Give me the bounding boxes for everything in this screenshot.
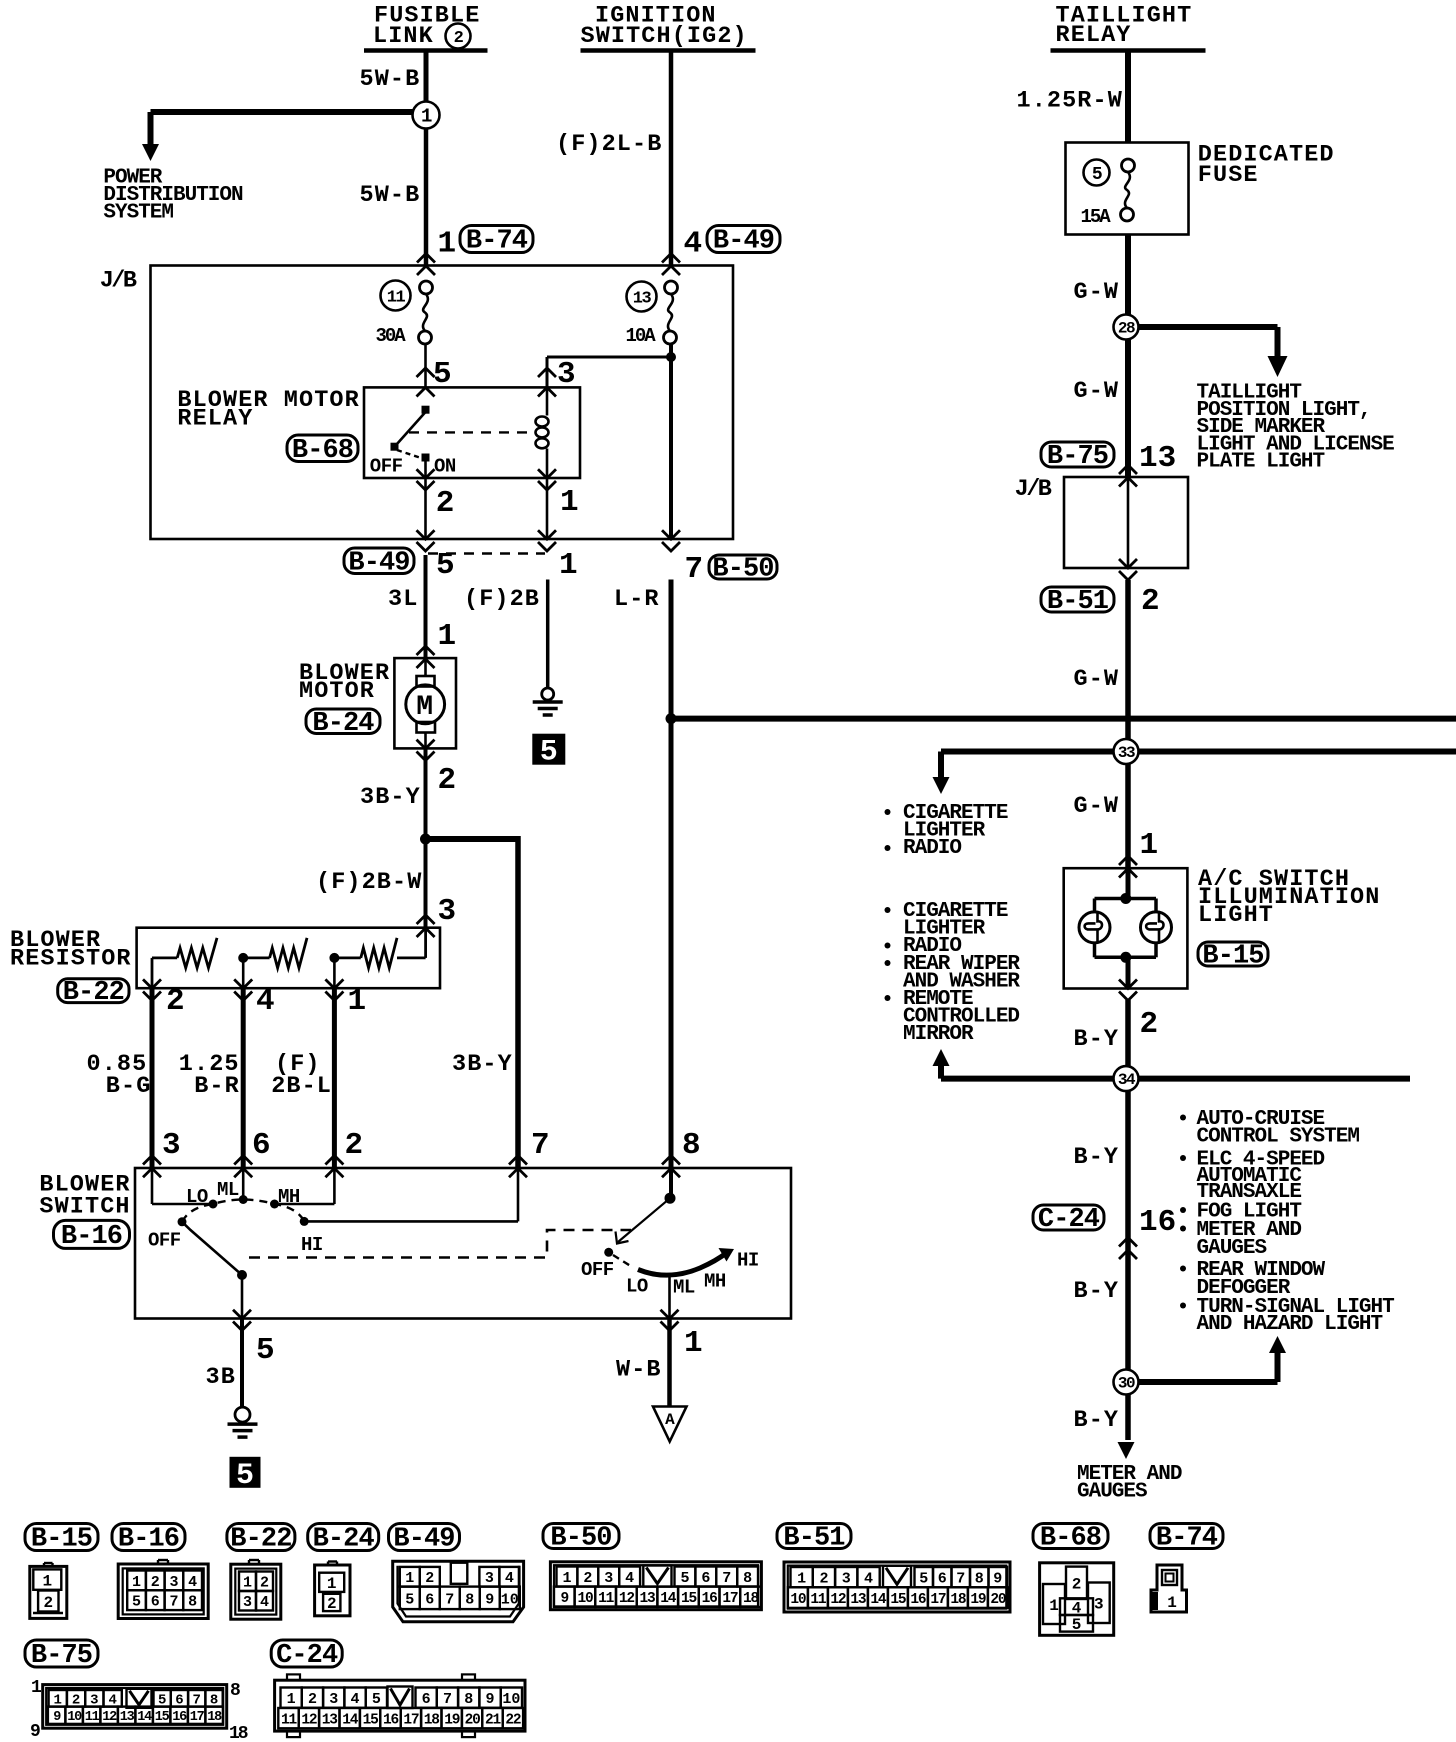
svg-text:4: 4	[256, 984, 275, 1019]
svg-text:18: 18	[743, 1591, 759, 1607]
svg-text:18: 18	[229, 1724, 248, 1742]
LO contact	[209, 1200, 218, 1209]
circled 2 (fusible link)	[446, 24, 471, 49]
svg-text:2: 2	[819, 1571, 828, 1588]
svg-text:1: 1	[42, 1572, 52, 1590]
left arm wire down	[241, 1275, 244, 1319]
svg-text:4: 4	[864, 1571, 873, 1588]
circled 13	[627, 282, 657, 312]
wire relay pin2 down	[424, 478, 427, 539]
svg-text:5: 5	[405, 1591, 414, 1608]
svg-text:10: 10	[790, 1592, 806, 1608]
svg-text:2: 2	[425, 1570, 434, 1587]
sw stub pin6	[242, 1168, 245, 1196]
svg-text:3: 3	[842, 1571, 851, 1588]
connector B-51 label	[1041, 587, 1114, 612]
svg-text:5: 5	[919, 1571, 928, 1588]
svg-text:4: 4	[684, 227, 703, 262]
svg-text:3: 3	[1094, 1596, 1104, 1614]
B-16 pinout	[118, 1564, 208, 1619]
svg-text:3: 3	[162, 1128, 181, 1163]
motor terminal top	[424, 659, 427, 677]
switch exit chevrons right	[661, 1310, 679, 1319]
connector B-49 ref	[389, 1524, 460, 1551]
svg-text:2: 2	[1140, 1007, 1159, 1042]
connector B-24 ref	[308, 1524, 379, 1551]
svg-text:2: 2	[583, 1570, 592, 1587]
svg-text:14: 14	[137, 1710, 152, 1725]
branch arrow up to mirror list	[938, 1062, 944, 1079]
C-24 pinout	[275, 1680, 525, 1731]
wire to relay coil	[547, 356, 671, 359]
svg-text:1.25R-W: 1.25R-W	[1017, 88, 1123, 115]
relay ON to pin2 wire	[424, 460, 427, 478]
svg-text:13: 13	[640, 1591, 656, 1607]
svg-text:2: 2	[1072, 1576, 1082, 1594]
resistor R1	[177, 938, 217, 968]
svg-text:6: 6	[252, 1128, 271, 1163]
svg-text:MH: MH	[704, 1271, 726, 1293]
B-24 pinout	[315, 1565, 350, 1616]
junction dot resistor a	[238, 953, 248, 963]
ground triangle A	[653, 1407, 687, 1442]
svg-text:2: 2	[166, 984, 185, 1019]
svg-text:11: 11	[85, 1710, 100, 1725]
ground symbol 1	[542, 688, 554, 700]
sw stub pin2	[333, 1168, 336, 1204]
wire (F)2L-B	[669, 51, 674, 267]
B-22 pinout	[231, 1564, 281, 1619]
svg-text:B-22: B-22	[63, 978, 124, 1008]
wire 0.85B-G	[150, 988, 155, 1168]
svg-text:20: 20	[465, 1712, 481, 1728]
resistor mid rail 1	[243, 957, 269, 960]
connector B-51 ref	[777, 1524, 851, 1549]
wire B-Y down	[1125, 1000, 1131, 1440]
illumination loads list 2	[885, 907, 891, 913]
connector B-74 label	[460, 226, 533, 253]
ground ref black 5 #2	[230, 1457, 261, 1488]
fuse symbol 15A	[1122, 159, 1135, 172]
B-74 pinout	[1151, 1565, 1187, 1612]
svg-text:B-74: B-74	[1156, 1524, 1218, 1554]
connector B-16 ref	[112, 1524, 185, 1551]
svg-text:8: 8	[464, 1691, 473, 1708]
svg-text:B-Y: B-Y	[1074, 1278, 1120, 1305]
junction circle 1	[413, 102, 440, 129]
B-15 pinout	[30, 1566, 67, 1618]
connector C-24 label	[1033, 1205, 1104, 1230]
switch exit chevrons left	[233, 1310, 251, 1319]
dedicated fuse box	[1066, 143, 1189, 235]
svg-text:5W-B: 5W-B	[360, 66, 421, 93]
svg-text:16: 16	[383, 1712, 399, 1728]
svg-text:8: 8	[682, 1128, 701, 1163]
wire (F)2B to ground	[546, 580, 550, 689]
bus line through 33	[941, 749, 1456, 755]
svg-text:5: 5	[132, 1594, 141, 1611]
blower resistor box	[137, 928, 440, 989]
motor exit chevrons	[417, 740, 435, 749]
blower motor relay box	[364, 387, 580, 478]
ground ref black 5 #1	[532, 734, 565, 765]
svg-text:7: 7	[445, 1591, 454, 1608]
B-51 pinout	[784, 1562, 1010, 1612]
svg-text:L-R: L-R	[614, 586, 660, 613]
connector B-68 label mid	[287, 435, 358, 462]
svg-text:1: 1	[438, 227, 457, 262]
B-49 dashed link	[428, 552, 545, 554]
resistor rail in	[424, 928, 427, 958]
wire 1.25R-W	[1125, 51, 1131, 144]
svg-text:B-50: B-50	[550, 1524, 611, 1554]
branch at 30 to turn-signal	[1138, 1379, 1278, 1385]
svg-text:OFF: OFF	[148, 1230, 181, 1252]
svg-text:5: 5	[1072, 1616, 1082, 1634]
connector B-50 ref	[543, 1524, 619, 1549]
right OFF dashed stub	[613, 1255, 633, 1268]
right switch wire to pivot	[669, 1168, 673, 1198]
svg-text:RESISTOR: RESISTOR	[10, 946, 132, 973]
resistor entry chevrons	[417, 915, 435, 924]
connector B-75 ref	[25, 1640, 98, 1667]
J/B exit chevrons x425	[417, 530, 435, 539]
motor terminal bottom	[417, 722, 436, 733]
svg-text:17: 17	[930, 1592, 946, 1608]
svg-text:1: 1	[327, 1575, 337, 1593]
svg-text:G-W: G-W	[1074, 666, 1120, 693]
svg-text:3: 3	[243, 1594, 252, 1611]
resistor exit chevrons	[143, 979, 161, 988]
wire (F)2B-W to resistor	[424, 839, 428, 928]
svg-text:B-51: B-51	[783, 1524, 845, 1554]
svg-text:15: 15	[890, 1592, 906, 1608]
wire G-W to J/B 2	[1125, 315, 1131, 477]
right switch arm	[618, 1198, 670, 1242]
svg-text:21: 21	[485, 1712, 502, 1728]
svg-text:7: 7	[685, 552, 704, 587]
svg-text:19: 19	[444, 1712, 460, 1728]
svg-text:ON: ON	[434, 456, 456, 478]
svg-text:G-W: G-W	[1074, 378, 1120, 405]
blower switch box	[135, 1168, 791, 1319]
left rotary dashed arc	[182, 1200, 304, 1222]
svg-text:20: 20	[990, 1592, 1006, 1608]
ignition switch bus bar	[581, 48, 756, 53]
svg-text:J/B: J/B	[1015, 476, 1052, 503]
svg-text:SWITCH: SWITCH	[39, 1194, 130, 1221]
svg-text:B-Y: B-Y	[1074, 1026, 1120, 1053]
connector B-75 label	[1041, 442, 1114, 467]
svg-text:12: 12	[619, 1591, 635, 1607]
svg-text:5: 5	[1092, 165, 1102, 185]
wire L-R lower	[669, 580, 674, 1169]
svg-text:3: 3	[329, 1691, 338, 1708]
svg-text:17: 17	[190, 1710, 205, 1725]
svg-text:6: 6	[422, 1691, 431, 1708]
svg-text:1: 1	[348, 984, 367, 1019]
svg-text:30A: 30A	[376, 325, 407, 347]
svg-text:J/B: J/B	[100, 268, 137, 295]
svg-text:CONTROL SYSTEM: CONTROL SYSTEM	[1197, 1126, 1360, 1149]
svg-text:B-49: B-49	[393, 1525, 454, 1555]
svg-text:10A: 10A	[626, 325, 657, 347]
relay coil	[546, 387, 549, 415]
sw stub pin7	[517, 1168, 520, 1221]
svg-text:1: 1	[405, 1570, 414, 1587]
svg-text:1: 1	[562, 1570, 571, 1587]
svg-text:2: 2	[1141, 584, 1160, 619]
resistor rail left	[152, 957, 177, 960]
svg-text:15: 15	[363, 1712, 379, 1728]
J/B exit chevrons x547	[538, 530, 556, 539]
svg-text:GAUGES: GAUGES	[1077, 1481, 1147, 1504]
branch at 28 to taillight loads	[1138, 324, 1278, 330]
svg-text:5W-B: 5W-B	[360, 182, 421, 209]
svg-text:2: 2	[436, 486, 455, 521]
svg-text:6: 6	[425, 1591, 434, 1608]
arrow to power distribution	[142, 144, 159, 161]
svg-text:7: 7	[443, 1691, 452, 1708]
svg-text:FUSE: FUSE	[1198, 162, 1259, 189]
HI contact	[300, 1217, 309, 1226]
svg-text:14: 14	[342, 1712, 359, 1728]
B-75 pinout	[43, 1685, 227, 1729]
lamp left	[1079, 912, 1110, 943]
wire 5W-B from fusible link	[424, 51, 429, 103]
junction dot top AC	[1120, 893, 1131, 904]
svg-text:1: 1	[287, 1691, 296, 1708]
svg-text:1: 1	[1140, 828, 1159, 863]
svg-text:2B-L: 2B-L	[271, 1073, 332, 1100]
svg-text:13: 13	[120, 1710, 135, 1725]
svg-text:7: 7	[722, 1570, 731, 1587]
svg-text:13: 13	[322, 1712, 338, 1728]
svg-text:10: 10	[502, 1691, 520, 1708]
junction dot fuse13	[666, 352, 676, 362]
svg-text:3: 3	[485, 1570, 494, 1587]
relay OFF contact	[391, 443, 399, 451]
svg-text:7: 7	[531, 1128, 550, 1163]
motor circle M	[406, 685, 445, 724]
switch entry chevrons	[143, 1156, 161, 1165]
wire through right J/B	[1127, 477, 1130, 568]
svg-text:A: A	[665, 1411, 675, 1429]
svg-text:11: 11	[598, 1591, 615, 1607]
svg-text:16: 16	[1139, 1205, 1176, 1240]
svg-text:7: 7	[956, 1571, 965, 1588]
wire 3B to ground	[240, 1319, 244, 1408]
svg-text:B-50: B-50	[712, 555, 773, 585]
svg-text:30: 30	[1118, 1375, 1135, 1393]
svg-text:17: 17	[722, 1591, 738, 1607]
svg-text:5: 5	[236, 1459, 254, 1493]
svg-text:B-49: B-49	[713, 227, 774, 257]
chevrons relay pin 3	[538, 368, 556, 377]
svg-text:5: 5	[256, 1333, 275, 1368]
branch wire to power distribution	[151, 109, 414, 115]
svg-text:8: 8	[975, 1571, 984, 1588]
relay ON contact	[422, 454, 430, 462]
svg-text:3B: 3B	[206, 1364, 236, 1391]
svg-text:RELAY: RELAY	[1056, 22, 1132, 49]
svg-text:1: 1	[1167, 1594, 1177, 1612]
wire W-B down	[667, 1319, 672, 1407]
wire 3L to motor	[424, 555, 428, 659]
svg-text:C-24: C-24	[276, 1641, 338, 1671]
exit chevrons AC box	[1119, 980, 1137, 989]
svg-text:MH: MH	[278, 1186, 300, 1208]
lamp bracket bottom	[1093, 942, 1097, 957]
svg-text:9: 9	[486, 1691, 495, 1708]
right pivot dot	[665, 1193, 676, 1204]
svg-text:18: 18	[207, 1710, 222, 1725]
svg-text:B-68: B-68	[292, 436, 353, 466]
svg-text:6: 6	[938, 1571, 947, 1588]
junction dot resistor b	[329, 953, 339, 963]
wire into AC box	[1126, 868, 1131, 898]
svg-text:4: 4	[625, 1570, 634, 1587]
svg-text:HI: HI	[301, 1234, 323, 1256]
resistor mid rail 2	[334, 957, 360, 960]
svg-text:2: 2	[308, 1691, 317, 1708]
svg-text:LO: LO	[626, 1276, 648, 1298]
svg-text:12: 12	[102, 1710, 117, 1725]
svg-text:SWITCH(IG2): SWITCH(IG2)	[581, 23, 748, 50]
svg-text:16: 16	[702, 1591, 718, 1607]
arrow to meter and gauges	[1118, 1442, 1135, 1459]
svg-text:22: 22	[505, 1712, 521, 1728]
svg-text:11: 11	[387, 288, 406, 307]
svg-text:11: 11	[810, 1592, 827, 1608]
B-68 pinout	[1040, 1563, 1114, 1636]
svg-text:2: 2	[260, 1575, 269, 1592]
svg-text:9: 9	[53, 1710, 61, 1725]
connector B-50 label mid	[709, 555, 777, 579]
svg-text:1: 1	[797, 1571, 806, 1588]
mechanical link dashed	[249, 1230, 631, 1258]
svg-text:2: 2	[327, 1595, 337, 1613]
svg-text:19: 19	[970, 1592, 986, 1608]
blower motor box	[394, 658, 456, 748]
svg-text:1: 1	[559, 548, 578, 583]
svg-text:2: 2	[43, 1594, 53, 1612]
svg-text:2: 2	[438, 763, 457, 798]
svg-text:1: 1	[243, 1575, 252, 1592]
svg-text:16: 16	[172, 1710, 187, 1725]
entry chevrons pin1	[417, 254, 435, 263]
right OFF contact	[604, 1248, 613, 1257]
wire relay pin1 down	[546, 478, 549, 539]
svg-text:1: 1	[560, 485, 579, 520]
svg-text:1: 1	[1049, 1597, 1059, 1615]
svg-text:B-24: B-24	[313, 1525, 375, 1555]
svg-text:13: 13	[633, 289, 652, 308]
svg-text:4: 4	[188, 1574, 197, 1591]
taillight relay bus bar	[1051, 48, 1206, 53]
svg-text:1: 1	[421, 106, 432, 128]
svg-text:5: 5	[540, 736, 558, 770]
circle 33	[1114, 739, 1139, 764]
lamp right	[1141, 912, 1172, 943]
fusible link bus bar	[364, 48, 488, 53]
svg-text:8: 8	[743, 1570, 752, 1587]
motor entry chevrons	[417, 646, 435, 655]
svg-text:8: 8	[465, 1591, 474, 1608]
svg-text:9: 9	[485, 1591, 494, 1608]
J/B exit chevrons x671	[662, 530, 680, 539]
B-49 pinout	[393, 1561, 524, 1622]
OFF contact left	[178, 1217, 187, 1226]
relay actuation dashed line	[409, 431, 536, 433]
ML contact	[239, 1195, 248, 1204]
svg-text:16: 16	[910, 1592, 926, 1608]
svg-text:9: 9	[560, 1591, 568, 1607]
svg-text:6: 6	[701, 1570, 710, 1587]
connector B-15 label	[1198, 942, 1268, 966]
svg-text:14: 14	[660, 1591, 677, 1607]
svg-text:B-16: B-16	[61, 1222, 122, 1252]
entry chevrons pin4	[662, 254, 680, 263]
relay OFF-ON dashed	[397, 450, 421, 458]
svg-text:LINK: LINK	[373, 23, 434, 50]
svg-text:RADIO: RADIO	[903, 837, 961, 860]
connector B-22 label mid	[58, 979, 129, 1003]
junction dot bottom AC	[1120, 952, 1131, 963]
connector B-68 ref	[1033, 1524, 1108, 1549]
relay arm	[395, 412, 426, 447]
svg-text:14: 14	[870, 1592, 887, 1608]
right rotary arc	[638, 1253, 727, 1276]
sw stub pin3	[151, 1168, 154, 1204]
svg-text:3: 3	[438, 894, 457, 929]
svg-text:B-75: B-75	[31, 1641, 92, 1671]
circle 34	[1114, 1066, 1139, 1091]
svg-text:15: 15	[681, 1591, 697, 1607]
svg-text:9: 9	[993, 1571, 1002, 1588]
wire G-W below fuse	[1125, 235, 1131, 316]
svg-text:13: 13	[1139, 441, 1176, 476]
svg-text:8: 8	[230, 1681, 240, 1701]
svg-text:11: 11	[281, 1712, 298, 1728]
connector B-49 label mid	[344, 548, 414, 574]
svg-text:2: 2	[345, 1128, 364, 1163]
svg-text:3B-Y: 3B-Y	[360, 784, 421, 811]
svg-text:28: 28	[1118, 320, 1135, 338]
svg-text:2: 2	[454, 29, 464, 48]
svg-text:8: 8	[188, 1594, 197, 1611]
lamp bracket top	[1095, 897, 1157, 901]
svg-text:OFF: OFF	[370, 456, 403, 478]
wire 3B-Y below motor	[424, 748, 428, 841]
svg-text:M: M	[416, 692, 434, 723]
svg-text:LO: LO	[186, 1186, 208, 1208]
circled 11	[381, 281, 411, 311]
left arm junction dot	[237, 1270, 247, 1280]
A/C illumination box	[1064, 868, 1188, 988]
svg-text:34: 34	[1118, 1071, 1136, 1089]
junction dot L-R	[666, 713, 677, 724]
bus line through 34	[941, 1076, 1410, 1082]
svg-text:B-68: B-68	[1040, 1524, 1101, 1554]
svg-text:1: 1	[684, 1326, 703, 1361]
svg-text:C-24: C-24	[1038, 1205, 1100, 1235]
svg-text:B-24: B-24	[312, 709, 374, 739]
fuse 11 symbol	[420, 281, 433, 294]
svg-text:ML: ML	[673, 1277, 695, 1299]
svg-text:MIRROR: MIRROR	[903, 1023, 974, 1046]
svg-text:15A: 15A	[1081, 206, 1112, 228]
